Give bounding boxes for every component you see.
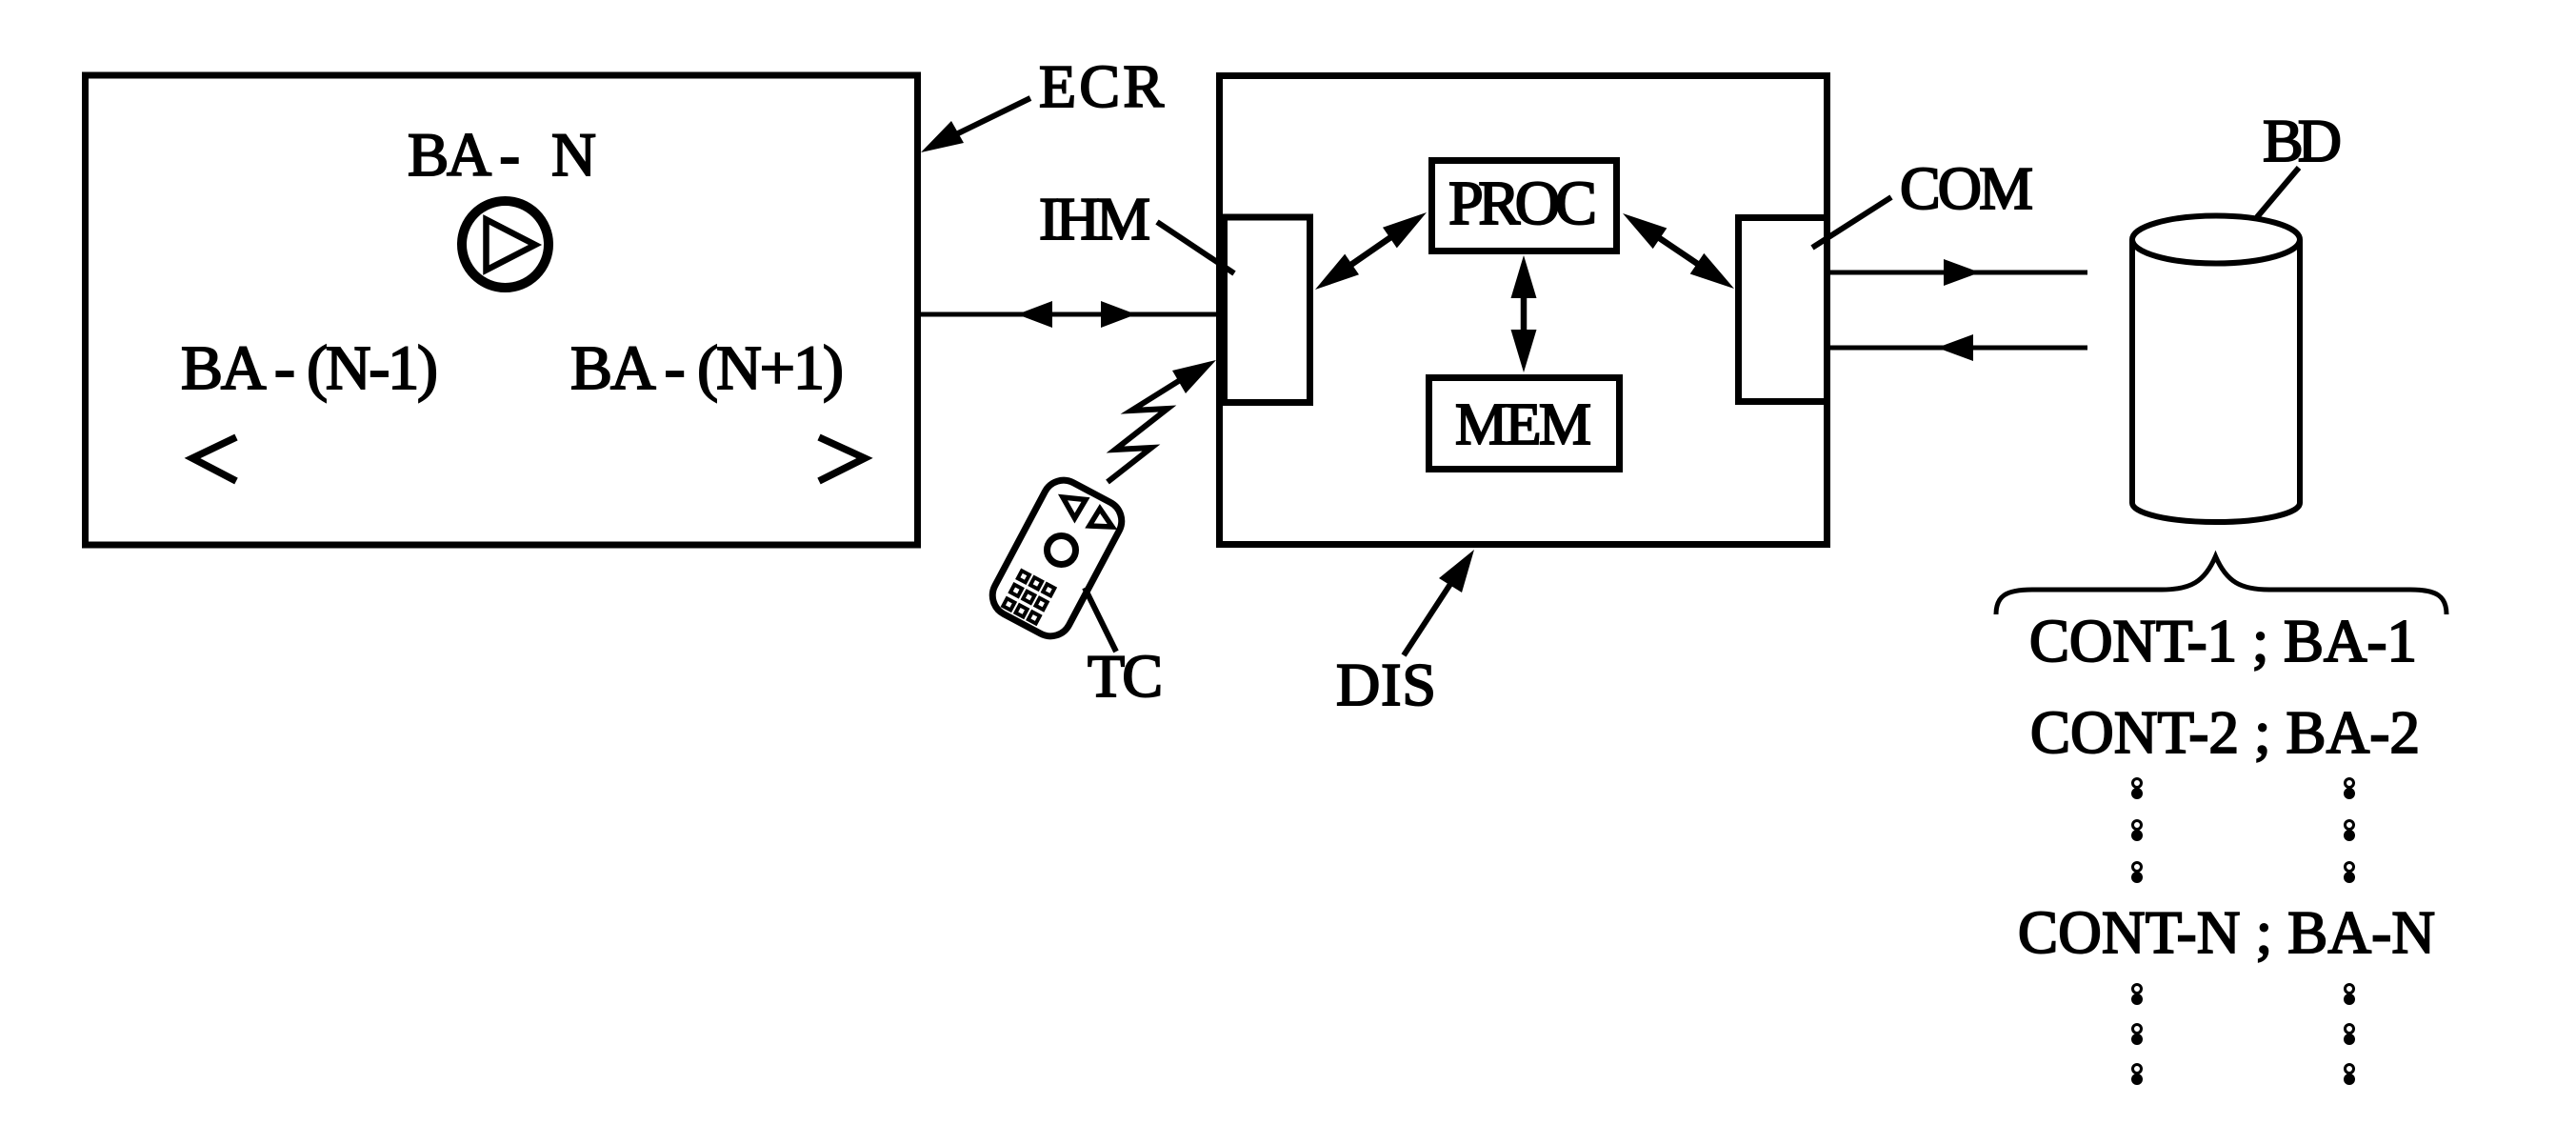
svg-text:TC: TC xyxy=(1088,642,1163,710)
svg-text:BA - (N+1): BA - (N+1) xyxy=(570,333,844,403)
svg-text:BD: BD xyxy=(2263,107,2342,174)
svg-text:BA - (N-1): BA - (N-1) xyxy=(181,333,438,403)
svg-text:COM: COM xyxy=(1900,154,2033,222)
svg-text:MEM: MEM xyxy=(1455,392,1591,457)
svg-text:CONT-1 ; BA-1: CONT-1 ; BA-1 xyxy=(2029,608,2417,674)
svg-text:IHM: IHM xyxy=(1039,185,1150,252)
svg-text:BA -: BA - xyxy=(408,121,520,190)
svg-text:CONT-2 ; BA-2: CONT-2 ; BA-2 xyxy=(2030,699,2420,766)
svg-text:CONT-N ; BA-N: CONT-N ; BA-N xyxy=(2018,899,2435,966)
svg-text:PROC: PROC xyxy=(1448,169,1597,238)
svg-text:DIS: DIS xyxy=(1336,651,1436,718)
svg-text:N: N xyxy=(551,121,596,190)
svg-text:ECR: ECR xyxy=(1039,52,1164,120)
